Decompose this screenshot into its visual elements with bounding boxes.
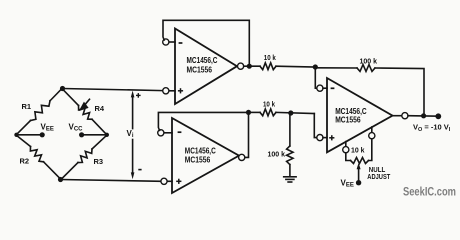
svg-text:MC1556: MC1556 [187, 66, 213, 75]
svg-text:ADJUST: ADJUST [367, 174, 391, 181]
svg-text:100 k: 100 k [360, 59, 378, 66]
pin U3 output [393, 115, 402, 117]
wire 100k to ground [289, 165, 291, 177]
wire top rail: bridge top vertex to U1 + input [63, 89, 163, 91]
node bridge right vertex [105, 133, 109, 137]
svg-text:R1: R1 [22, 102, 32, 111]
node output terminal [435, 113, 441, 119]
pin U1 output [238, 63, 244, 69]
svg-text:VO = -10 VI: VO = -10 VI [413, 123, 451, 133]
node bridge top vertex [60, 86, 65, 91]
label U1 minus [179, 42, 183, 44]
resistor R3 [61, 163, 78, 180]
wire node B to U3 non-inverting input [314, 114, 316, 138]
label U1 plus [178, 90, 183, 92]
ground [284, 176, 296, 178]
svg-text:R2: R2 [20, 157, 30, 166]
svg-text:SeekIC.com: SeekIC.com [403, 185, 456, 199]
svg-text:10 k: 10 k [264, 55, 276, 62]
label U2 plus [176, 180, 181, 182]
wire VCC terminal to right vertex [82, 134, 107, 136]
pin U3 inverting input [317, 85, 323, 91]
label U3 plus [329, 137, 334, 139]
wire left vertex to VEE terminal [16, 134, 42, 136]
node B (ground leg junction) [288, 110, 293, 115]
pin U2 non-inverting input [167, 180, 172, 182]
svg-text:VCC: VCC [69, 123, 84, 133]
svg-text:MC1556: MC1556 [335, 115, 361, 124]
wiper arrow of potentiometer [358, 169, 360, 183]
node VCC terminal [79, 132, 84, 137]
node VEE terminal of pot [356, 180, 361, 185]
resistor R1 [31, 101, 51, 121]
resistor 10k (upper) [260, 63, 276, 70]
wire 10k lower to node B [276, 112, 314, 113]
pin U2 inverting input [164, 132, 172, 134]
wire node A to 100k feedback [315, 67, 357, 69]
wire node B down to 100k [289, 113, 291, 146]
node bridge bottom vertex [58, 177, 63, 182]
resistor R4 [62, 89, 79, 106]
wire U3 output to terminal [408, 115, 439, 118]
svg-text:10 k: 10 k [263, 101, 275, 108]
op-amp U1 [175, 29, 237, 105]
resistor 100k (feedback) [357, 65, 375, 72]
svg-text:100 k: 100 k [268, 152, 286, 159]
svg-text:MC1456,C: MC1456,C [185, 146, 216, 155]
pin U2 output [239, 154, 245, 160]
wire 100k feedback to output node [375, 68, 424, 116]
wire U1 feedback loop [163, 20, 249, 66]
pin U3 offset null 1 [345, 142, 347, 147]
wire U1 output to node A [244, 65, 260, 67]
pin U3 offset null 2 [371, 127, 373, 133]
label Vi minus [138, 169, 141, 171]
label U3 minus [331, 87, 335, 89]
label Vi plus [136, 94, 141, 96]
wire R1 to left vertex [16, 121, 31, 136]
node A (U3 inverting node) [313, 64, 318, 69]
svg-text:10 k: 10 k [351, 147, 365, 154]
wire U2 feedback loop [158, 112, 248, 157]
wire null pins to potentiometer [346, 153, 351, 161]
svg-text:R3: R3 [94, 157, 104, 166]
svg-text:VEE: VEE [41, 123, 54, 133]
svg-text:MC1556: MC1556 [185, 155, 211, 164]
wire 10k to node A [276, 65, 315, 68]
resistor R2 [16, 135, 31, 147]
wire bridge top-left edge [50, 89, 62, 101]
resistor 100k (to ground) [287, 146, 293, 165]
potentiometer 10k null [351, 158, 369, 164]
resistor 10k (lower) [260, 109, 276, 116]
node Vi arrow (measurement) [132, 96, 134, 129]
pin U3 non-inverting input [317, 135, 323, 141]
node U2 output junction [246, 110, 251, 115]
svg-text:VEE: VEE [341, 179, 354, 189]
wire bottom rail: bridge bottom vertex to U2 + input [61, 180, 161, 182]
label U2 minus [178, 131, 182, 133]
svg-text:MC1456,C: MC1456,C [187, 56, 218, 65]
pin U1 inverting input [169, 41, 175, 43]
pin U1 non-inverting input [169, 90, 175, 92]
svg-text:R4: R4 [95, 104, 105, 113]
svg-text:Vi: Vi [127, 129, 134, 139]
op-amp U2 [172, 118, 239, 193]
node U1 output junction [247, 64, 252, 69]
node bridge left vertex [14, 133, 18, 137]
node output feedback junction [421, 113, 426, 118]
wire node A to U3 inverting input [315, 67, 316, 88]
node VEE terminal [40, 132, 45, 137]
arrow of R4 (variable) [85, 99, 90, 105]
op-amp U3 [327, 78, 393, 152]
